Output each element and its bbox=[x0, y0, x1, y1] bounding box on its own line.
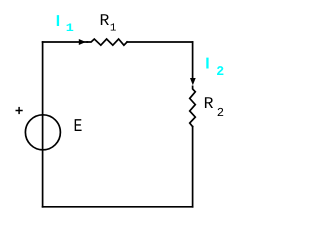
svg-text:1: 1 bbox=[110, 23, 116, 35]
wire: bottom horizontal bbox=[43, 206, 193, 208]
wire: top, right of R1 bbox=[127, 41, 193, 43]
svg-text:I: I bbox=[205, 56, 209, 73]
svg-text:R: R bbox=[100, 11, 110, 30]
voltage source E: circle bbox=[25, 115, 60, 150]
wire: top, left of R1 bbox=[43, 41, 88, 43]
svg-text:R: R bbox=[204, 94, 214, 113]
svg-text:1: 1 bbox=[66, 23, 74, 35]
resistor R1 zigzag bbox=[87, 39, 127, 45]
svg-text:2: 2 bbox=[216, 64, 224, 79]
wire: left vertical bbox=[42, 42, 44, 207]
wire: right vertical above R2 bbox=[192, 42, 194, 78]
polarity plus sign of source E bbox=[16, 107, 23, 114]
svg-text:E: E bbox=[74, 117, 83, 137]
wire: right vertical below R2 bbox=[192, 127, 194, 207]
current arrow head for I1 (points right) bbox=[79, 39, 86, 45]
resistor R2 zigzag bbox=[190, 86, 196, 126]
current arrow head for I2 (points down) bbox=[190, 78, 196, 85]
svg-text:2: 2 bbox=[217, 106, 224, 120]
svg-text:I: I bbox=[56, 13, 60, 30]
